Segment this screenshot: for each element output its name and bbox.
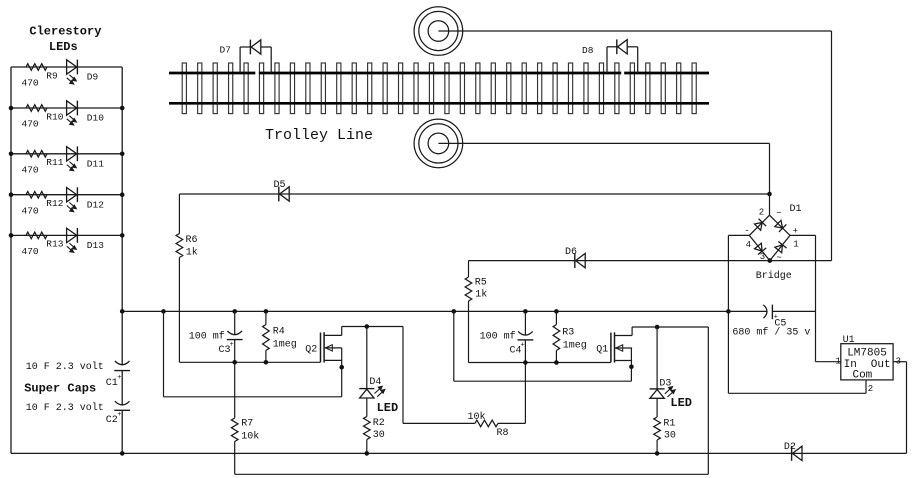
svg-text:R10: R10	[46, 111, 63, 122]
wire C3 top	[234, 311, 236, 334]
trolley track top rail (left segment)	[169, 72, 255, 75]
LED D10	[67, 101, 77, 115]
svg-text:1k: 1k	[186, 247, 198, 259]
junction dot Q1 source	[629, 365, 634, 370]
wire R6 bottom to Q2 gate rail	[178, 258, 180, 363]
svg-text:~: ~	[776, 208, 781, 218]
resistor R8 10k	[475, 420, 498, 427]
svg-text:C2: C2	[106, 415, 118, 426]
svg-text:R7: R7	[241, 419, 253, 430]
svg-text:+: +	[521, 342, 525, 350]
svg-text:100 mf: 100 mf	[480, 331, 516, 343]
LED D12	[67, 188, 77, 202]
svg-text:Clerestory: Clerestory	[29, 25, 101, 39]
wire R7 bottom to cross-couple	[234, 442, 236, 475]
resistor R11 470	[26, 151, 47, 158]
svg-text:1k: 1k	[475, 289, 487, 301]
wire cross-couple up to Q1 drain rail	[707, 327, 709, 474]
svg-text:470: 470	[22, 205, 39, 216]
svg-text:+: +	[230, 341, 234, 349]
wire Q2 source return	[163, 311, 165, 396]
wire D6 horizontal	[469, 260, 832, 262]
svg-text:2: 2	[868, 384, 873, 394]
junction dot bottom at R1	[655, 451, 660, 456]
bridge diode (AC bottom to plus)	[775, 245, 783, 253]
svg-text:R6: R6	[186, 235, 198, 246]
wire Q2 drain down for R8	[402, 327, 404, 424]
resistor R13 470	[26, 232, 47, 239]
resistor R7 10k	[231, 418, 238, 442]
wire D3 to R1	[656, 398, 658, 417]
svg-text:LED: LED	[670, 396, 692, 410]
resistor R12 470	[26, 191, 47, 198]
transistor Q1 (MOSFET)	[610, 333, 612, 363]
svg-text:D11: D11	[87, 158, 104, 169]
svg-text:LM7805: LM7805	[847, 348, 887, 360]
wire LED branch 2	[11, 107, 122, 109]
resistor R1 30	[654, 417, 661, 440]
wire D3 top	[656, 327, 658, 389]
svg-text:Super Caps: Super Caps	[24, 382, 96, 396]
wire D4 top	[366, 327, 368, 389]
wire R8 right lead	[498, 422, 526, 424]
junction dot bottom at C2	[120, 451, 125, 456]
svg-text:Q2: Q2	[305, 344, 317, 355]
junction dot rail at Q1 source branch	[452, 309, 457, 314]
junction dot D4 top	[365, 324, 370, 329]
svg-text:470: 470	[22, 78, 39, 89]
junction dot bottom at R2	[365, 451, 370, 456]
wire D7 right stub	[270, 47, 272, 73]
resistor R10 470	[26, 105, 47, 112]
svg-text:3: 3	[896, 357, 901, 367]
LED D9	[67, 60, 77, 74]
wire D8 right stub	[637, 47, 639, 73]
junction dot rail at bridge minus column	[726, 309, 731, 314]
bridge diode (minus to AC bottom)	[755, 243, 763, 251]
LED D4	[359, 388, 374, 390]
svg-text:D9: D9	[87, 72, 99, 83]
svg-text:D2: D2	[784, 442, 796, 453]
svg-text:2: 2	[759, 207, 764, 217]
wire LED branch 5	[11, 234, 122, 236]
svg-text:D8: D8	[582, 45, 594, 56]
svg-text:~: ~	[776, 253, 781, 263]
svg-text:30: 30	[373, 430, 385, 441]
junction dots branch 3	[9, 152, 14, 157]
wire Q1 source return	[453, 311, 455, 381]
junction dots branch 5	[9, 233, 14, 238]
junction dot rail at R4	[264, 309, 269, 314]
svg-text:3: 3	[760, 252, 765, 262]
svg-text:D1: D1	[790, 204, 802, 215]
LED D13	[67, 228, 77, 242]
wire U1 pin 2 common	[865, 380, 867, 393]
wire R4 bottom	[265, 351, 267, 363]
svg-text:R8: R8	[497, 428, 509, 439]
svg-text:D5: D5	[274, 180, 286, 191]
svg-text:10 F 2.3 volt: 10 F 2.3 volt	[26, 402, 104, 414]
svg-text:10k: 10k	[241, 431, 259, 443]
wire left rail of LED bank	[10, 67, 12, 453]
LED D11	[67, 147, 77, 161]
bridge diode (AC top to plus)	[775, 220, 783, 228]
diode D7	[249, 40, 251, 55]
junction dot rail at R3	[554, 309, 559, 314]
trolley wheel top	[414, 7, 463, 56]
svg-text:R1: R1	[663, 418, 675, 429]
wire bridge plus lead	[790, 234, 816, 236]
wire R4 top	[265, 311, 267, 324]
svg-text:LEDs: LEDs	[49, 40, 78, 54]
junction dot rail at C3	[232, 309, 237, 314]
capacitor C2 super cap	[115, 401, 130, 405]
svg-text:Trolley Line: Trolley Line	[265, 127, 373, 144]
junction dot Q2 source	[339, 365, 344, 370]
junction dot gate rail at R3	[554, 360, 559, 365]
svg-text:100 mf: 100 mf	[189, 330, 225, 342]
wire C5 right	[772, 310, 815, 312]
svg-text:470: 470	[22, 246, 39, 257]
junction dot gate rail at C3	[232, 360, 237, 365]
svg-text:470: 470	[22, 165, 39, 176]
wire Q1 drain rail	[632, 326, 708, 328]
junction dot gate rail at C4	[523, 360, 528, 365]
capacitor C1 super cap	[115, 361, 130, 365]
svg-text:470: 470	[22, 119, 39, 130]
trolley track top rail (right of D8 gap)	[624, 72, 709, 75]
wire lower cross-couple	[235, 473, 709, 475]
wire right rail of LED bank	[121, 67, 123, 311]
wire bottom wheel down to node	[769, 143, 771, 194]
wire main common rail	[122, 310, 728, 312]
bridge rectifier D1 diamond	[749, 215, 769, 235]
svg-text:1meg: 1meg	[273, 339, 297, 350]
wire from top wheel to right vertical	[438, 30, 831, 32]
wire D7 left stub	[239, 47, 241, 73]
wire C4 bottom to gate rail	[524, 340, 526, 363]
svg-text:D6: D6	[565, 247, 577, 258]
wire LED branch 1	[11, 66, 122, 68]
svg-text:D7: D7	[220, 45, 231, 56]
trolley track bottom rail	[169, 102, 709, 105]
capacitor C3 100 mf	[227, 331, 242, 335]
wire R8 left lead	[403, 422, 475, 424]
wire C3 bottom to gate rail	[234, 340, 236, 363]
transistor Q2 (MOSFET)	[320, 333, 322, 363]
bridge diode (minus to AC top)	[754, 222, 762, 230]
svg-text:+: +	[117, 374, 121, 382]
junction dot D3 top	[655, 325, 660, 330]
wire Q2 drain rail	[342, 326, 403, 328]
diode D2	[791, 446, 793, 461]
svg-text:10 F 2.3 volt: 10 F 2.3 volt	[26, 361, 104, 373]
svg-text:Out: Out	[871, 359, 891, 371]
svg-text:R11: R11	[46, 157, 63, 168]
svg-text:680 mf / 35 v: 680 mf / 35 v	[732, 327, 810, 339]
wire C1 to C2	[121, 371, 123, 406]
svg-text:30: 30	[664, 431, 676, 442]
svg-text:Bridge: Bridge	[756, 270, 792, 282]
resistor R5 1k	[465, 277, 472, 301]
wire D4 to R2	[366, 398, 368, 417]
svg-text:D12: D12	[87, 199, 104, 210]
wire right vertical from top wheel wire	[831, 31, 833, 261]
wire bridge minus lead	[728, 234, 749, 236]
wire R1 bottom	[656, 440, 658, 453]
svg-text:R5: R5	[475, 277, 487, 288]
wire from bottom wheel	[438, 142, 769, 144]
diode D6	[574, 253, 576, 268]
junction dot gate rail at R4	[264, 360, 269, 365]
trolley wheel bottom	[414, 119, 463, 168]
svg-text:+: +	[117, 411, 121, 419]
resistor R4 1meg	[263, 325, 270, 351]
svg-text:1meg: 1meg	[563, 341, 587, 352]
wire Q2 drain up	[341, 327, 343, 336]
wire Q2 gate rail	[179, 361, 320, 363]
wire R6 top	[178, 194, 180, 234]
svg-text:4: 4	[746, 240, 751, 250]
wire R3 top	[555, 311, 557, 324]
svg-text:R9: R9	[46, 70, 58, 81]
svg-text:D4: D4	[369, 377, 381, 388]
svg-text:R4: R4	[273, 326, 285, 337]
wire right rail to C1	[121, 311, 123, 365]
wire LED branch 4	[11, 194, 122, 196]
trolley track top rail (right of D7 gap)	[259, 72, 621, 75]
diode D8	[616, 39, 618, 54]
junction dot rail at LED bank	[120, 309, 125, 314]
wire bottom supply	[11, 452, 907, 454]
resistor R3 1meg	[553, 325, 560, 351]
svg-text:R2: R2	[373, 418, 385, 429]
junction dot bridge AC bottom	[768, 258, 773, 263]
trolley track ties	[182, 63, 186, 114]
junction dots branch 2	[9, 106, 14, 111]
resistor R9 470	[26, 64, 47, 71]
wire LED branch 3	[11, 153, 122, 155]
junction dot rail at C4	[523, 309, 528, 314]
junction dots branch 4	[9, 192, 14, 197]
wire R5 bottom to Q1 gate rail	[468, 301, 470, 363]
svg-text:R13: R13	[46, 239, 63, 250]
svg-text:1: 1	[793, 239, 798, 249]
svg-text:1: 1	[835, 357, 840, 367]
node junction at bridge AC top	[767, 192, 772, 197]
wire C5 left	[728, 310, 767, 312]
wire C3 column down to R7	[234, 362, 236, 418]
wire R3 bottom	[555, 351, 557, 363]
diode D5	[278, 187, 280, 202]
resistor R6 1k	[176, 234, 183, 258]
wire R5 top	[468, 261, 470, 277]
wire C2 to bottom	[121, 410, 123, 453]
regulator U1 box	[841, 344, 893, 380]
svg-text:D13: D13	[87, 240, 104, 251]
wire Q1 gate rail	[469, 362, 611, 364]
wire U1 pin 1 input	[816, 361, 841, 363]
svg-text:R12: R12	[46, 198, 63, 209]
svg-text:Q1: Q1	[596, 345, 608, 356]
wire R2 bottom	[366, 440, 368, 454]
wire U1 pin 3 output	[893, 361, 906, 363]
wire bridge AC top lead	[769, 194, 771, 215]
LED D3	[650, 388, 665, 390]
capacitor C5 680 mf 35 v	[763, 305, 767, 318]
svg-text:U1: U1	[843, 335, 855, 346]
svg-text:D3: D3	[659, 379, 671, 390]
capacitor C4 100 mf	[518, 331, 533, 335]
resistor R2 30	[364, 417, 371, 440]
svg-text:R3: R3	[562, 327, 574, 338]
wire R8 up to Q1 gate rail	[524, 363, 526, 424]
svg-text:-: -	[744, 226, 749, 236]
svg-text:Com: Com	[852, 370, 872, 382]
wire C4 top	[524, 311, 526, 335]
svg-text:LED: LED	[377, 401, 399, 415]
wire D5 horizontal	[179, 193, 769, 195]
svg-text:C1: C1	[106, 378, 118, 389]
junction dot rail at Q2 source branch	[161, 309, 166, 314]
wire Q1 drain up	[631, 327, 633, 336]
svg-text:D10: D10	[87, 113, 104, 124]
wire D8 left stub	[606, 47, 608, 73]
